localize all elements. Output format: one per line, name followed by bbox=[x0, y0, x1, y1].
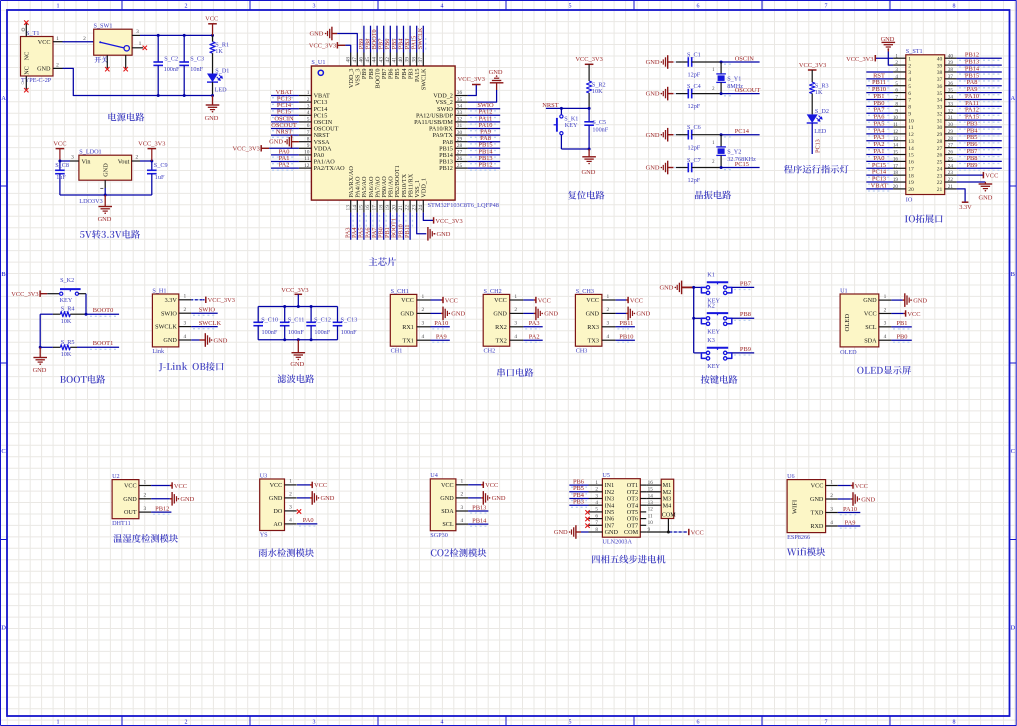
svg-text:5: 5 bbox=[908, 84, 911, 90]
svg-text:32: 32 bbox=[937, 111, 943, 117]
wire and net label PA11 at U1 pin 32 bbox=[468, 115, 501, 124]
svg-text:PA9: PA9 bbox=[845, 519, 856, 526]
capacitor S_C1 12pF with GND and net OSCIN bbox=[646, 51, 760, 78]
push button S_K2 KEY bbox=[60, 277, 81, 304]
module U6 ESP8266 body bbox=[787, 473, 838, 541]
svg-text:3: 3 bbox=[289, 505, 292, 511]
svg-text:SWCLK: SWCLK bbox=[199, 320, 222, 327]
wire and net label PA10 at S_ST1 pin 34 bbox=[957, 93, 1002, 102]
svg-text:39: 39 bbox=[948, 60, 954, 66]
svg-text:GND: GND bbox=[310, 31, 324, 38]
junction filter rail C11 top bbox=[283, 305, 286, 308]
wire and net label PB0 at U1 OLED pin 4 SDA bbox=[891, 334, 911, 343]
wire S_T1 GND to bottom rail bbox=[63, 68, 213, 95]
svg-text:16: 16 bbox=[893, 156, 899, 162]
push button K2 KEY bbox=[694, 302, 732, 335]
svg-text:23: 23 bbox=[411, 205, 417, 211]
svg-text:28: 28 bbox=[457, 143, 463, 149]
module U4 SGP30 body bbox=[430, 472, 468, 539]
svg-text:BOOT1: BOOT1 bbox=[93, 340, 114, 347]
svg-text:M4: M4 bbox=[663, 502, 672, 509]
section title BOOT电路 bbox=[60, 375, 105, 384]
svg-text:VCC_3V3: VCC_3V3 bbox=[799, 62, 826, 69]
svg-text:40: 40 bbox=[937, 56, 943, 62]
svg-text:PB10: PB10 bbox=[619, 334, 633, 341]
net 3.3V at S_ST1 pin 21 bbox=[957, 189, 973, 211]
svg-text:OLED: OLED bbox=[840, 349, 857, 356]
junction at Vin node bbox=[58, 160, 61, 163]
svg-text:9: 9 bbox=[908, 111, 911, 117]
svg-text:18: 18 bbox=[378, 205, 384, 211]
wire and net label OSCIN at U1 pin 5 bbox=[271, 115, 299, 124]
junction filter GND node bbox=[297, 338, 300, 341]
wire and net label PB6 at U5 pin 1 bbox=[569, 479, 588, 488]
svg-text:PA3: PA3 bbox=[529, 320, 540, 327]
svg-text:2: 2 bbox=[830, 493, 833, 499]
svg-text:3: 3 bbox=[514, 321, 517, 327]
svg-text:4: 4 bbox=[595, 500, 598, 506]
wire and net label PB12 at U1 pin 25 bbox=[468, 162, 501, 171]
svg-text:1uF: 1uF bbox=[155, 174, 165, 181]
svg-text:10: 10 bbox=[304, 150, 310, 156]
svg-text:34: 34 bbox=[457, 103, 463, 109]
svg-text:TXD: TXD bbox=[811, 510, 824, 517]
svg-text:COM: COM bbox=[624, 529, 639, 536]
svg-text:31: 31 bbox=[937, 118, 943, 124]
svg-text:SDA: SDA bbox=[441, 508, 454, 515]
svg-text:7: 7 bbox=[825, 719, 828, 725]
wire U5 COM to motor and VCC bbox=[646, 519, 687, 533]
svg-text:40: 40 bbox=[398, 57, 404, 63]
svg-text:10: 10 bbox=[893, 115, 899, 121]
svg-text:PB0: PB0 bbox=[896, 334, 907, 341]
wire and net label PB4 at U5 pin 3 bbox=[569, 492, 588, 501]
svg-text:VDD_1: VDD_1 bbox=[421, 178, 428, 198]
svg-text:12pF: 12pF bbox=[688, 144, 701, 151]
svg-text:38: 38 bbox=[411, 57, 417, 63]
svg-text:26: 26 bbox=[457, 156, 463, 162]
svg-text:VCC: VCC bbox=[985, 172, 998, 179]
svg-text:23: 23 bbox=[937, 173, 943, 179]
ground GND of filter bbox=[290, 340, 305, 368]
ground GND of BOOT circuit bbox=[33, 347, 47, 374]
junction key GND node bbox=[692, 286, 695, 289]
svg-text:SCL: SCL bbox=[442, 521, 454, 528]
wire and net label PA6 at S_ST1 pin 10 bbox=[866, 114, 893, 123]
svg-text:RX1: RX1 bbox=[402, 324, 414, 331]
ground GND at U2 pin 2 bbox=[151, 492, 195, 506]
svg-text:VCC: VCC bbox=[855, 483, 868, 490]
svg-text:GND: GND bbox=[646, 165, 660, 172]
svg-text:VCC: VCC bbox=[494, 297, 507, 304]
svg-text:2: 2 bbox=[461, 492, 464, 498]
wire and net label PA0 at U3 pin 4 bbox=[297, 517, 317, 526]
svg-text:1K: 1K bbox=[815, 89, 823, 96]
svg-text:34: 34 bbox=[937, 98, 943, 104]
svg-text:2: 2 bbox=[183, 307, 186, 313]
svg-text:NC: NC bbox=[24, 52, 31, 61]
wire and net label PA15 at U1 pin 38 bbox=[411, 26, 420, 53]
svg-text:S_CH1: S_CH1 bbox=[391, 288, 409, 295]
svg-text:25: 25 bbox=[937, 160, 943, 166]
svg-text:VCC: VCC bbox=[124, 483, 137, 490]
svg-text:GND: GND bbox=[163, 337, 177, 344]
svg-text:VCC: VCC bbox=[53, 140, 66, 147]
wire and net label PB1 at U1 OLED pin 3 SCL bbox=[891, 320, 911, 329]
crystal S_Y2 32.768KHz bbox=[712, 135, 756, 168]
net label NRST and wire bbox=[542, 102, 589, 109]
junction crystal Y2 bottom bbox=[720, 166, 723, 169]
svg-text:32: 32 bbox=[948, 108, 954, 114]
svg-text:3: 3 bbox=[884, 321, 887, 327]
svg-text:GND: GND bbox=[321, 495, 335, 502]
svg-text:22: 22 bbox=[405, 205, 411, 211]
svg-text:2: 2 bbox=[514, 307, 517, 313]
svg-text:37: 37 bbox=[418, 57, 424, 63]
svg-text:K2: K2 bbox=[707, 302, 715, 309]
svg-text:14: 14 bbox=[893, 143, 899, 149]
svg-text:14: 14 bbox=[908, 146, 914, 152]
wire and net label PB13 at S_ST1 pin 39 bbox=[957, 59, 1002, 68]
svg-text:VCC: VCC bbox=[630, 297, 643, 304]
svg-text:GND: GND bbox=[660, 285, 674, 292]
svg-text:PB12: PB12 bbox=[439, 165, 453, 172]
display U1 OLED body bbox=[840, 287, 891, 356]
svg-text:1: 1 bbox=[307, 90, 310, 96]
ground GND at U1 pin 23 VSS_1 bbox=[417, 213, 451, 241]
svg-text:PA2: PA2 bbox=[529, 334, 540, 341]
svg-text:IO: IO bbox=[906, 196, 913, 203]
wire filter top rail bbox=[258, 306, 337, 308]
svg-text:100nF: 100nF bbox=[164, 66, 180, 73]
svg-text:B: B bbox=[1, 271, 6, 278]
S_ST1 left pin stubs 1-20 bbox=[893, 53, 906, 190]
wire and net label SWIO at S_H1 pin 2 bbox=[191, 307, 218, 316]
svg-text:S_T1: S_T1 bbox=[26, 30, 39, 37]
junction filter VCC node bbox=[297, 305, 300, 308]
svg-text:2: 2 bbox=[83, 36, 86, 42]
svg-text:GND: GND bbox=[269, 495, 283, 502]
svg-text:11: 11 bbox=[893, 122, 898, 128]
svg-text:1: 1 bbox=[908, 56, 911, 62]
module U3 YS body bbox=[260, 472, 297, 538]
svg-text:11: 11 bbox=[908, 125, 914, 131]
pin 2 Vout of S_LDO1 bbox=[132, 155, 152, 161]
svg-text:VCC_3V3: VCC_3V3 bbox=[208, 297, 235, 304]
svg-text:12: 12 bbox=[893, 129, 899, 135]
svg-text:1: 1 bbox=[830, 479, 833, 485]
ground GND of reset circuit bbox=[581, 149, 595, 176]
svg-text:100nF: 100nF bbox=[314, 329, 330, 336]
svg-text:39: 39 bbox=[405, 57, 411, 63]
crystal S_Y1 8MHz bbox=[712, 62, 743, 94]
push button S_K1 KEY bbox=[554, 108, 579, 149]
svg-text:6: 6 bbox=[908, 91, 911, 97]
svg-text:VCC: VCC bbox=[485, 482, 498, 489]
svg-text:36: 36 bbox=[948, 81, 954, 87]
svg-text:U1: U1 bbox=[840, 287, 848, 294]
svg-text:GND: GND bbox=[581, 169, 595, 176]
power flag VCC_3V3 at U1 pin 36 VDD_2 bbox=[458, 76, 485, 95]
svg-text:100nF: 100nF bbox=[288, 329, 304, 336]
svg-text:5: 5 bbox=[307, 117, 310, 123]
svg-text:9: 9 bbox=[895, 108, 898, 114]
svg-text:8: 8 bbox=[953, 719, 956, 725]
svg-text:SWCLK: SWCLK bbox=[155, 324, 177, 331]
junction bottom rail at D1 bbox=[211, 94, 214, 97]
ground GND at S_CH2 pin 2 bbox=[523, 307, 558, 321]
wire and net label PA10 at U6 pin 3 bbox=[838, 506, 861, 515]
svg-text:25: 25 bbox=[948, 156, 954, 162]
svg-text:YS: YS bbox=[260, 532, 268, 539]
power flag VCC at LDO input bbox=[53, 140, 66, 161]
wire and net label PB13 at U4 pin 3 bbox=[468, 504, 488, 513]
svg-text:Link: Link bbox=[152, 348, 165, 355]
wire and net label PA3 at U1 pin 13 bbox=[345, 213, 354, 240]
connector S_CH1 body bbox=[390, 288, 430, 355]
svg-text:2: 2 bbox=[185, 719, 188, 725]
wire and net label VBAT at S_ST1 pin 20 bbox=[866, 182, 893, 191]
junction at NRST/R2/C5 node bbox=[588, 107, 591, 110]
svg-text:U3: U3 bbox=[260, 472, 268, 479]
svg-text:4: 4 bbox=[830, 520, 833, 526]
svg-text:24: 24 bbox=[937, 166, 943, 172]
section title J-Link OB接口 bbox=[159, 362, 224, 371]
svg-text:S_Y2: S_Y2 bbox=[727, 149, 741, 156]
svg-text:1: 1 bbox=[607, 294, 610, 300]
power flag VCC at S_CH3 pin 1 bbox=[616, 297, 643, 305]
svg-text:A: A bbox=[1010, 95, 1015, 102]
svg-text:PB1: PB1 bbox=[896, 320, 907, 327]
junction at key K1 top bbox=[560, 107, 563, 110]
svg-text:1: 1 bbox=[289, 479, 292, 485]
svg-text:8: 8 bbox=[908, 105, 911, 111]
junction at Vout node bbox=[150, 160, 153, 163]
svg-text:VCC: VCC bbox=[538, 297, 551, 304]
svg-text:GND: GND bbox=[492, 495, 506, 502]
svg-text:31: 31 bbox=[457, 123, 463, 129]
svg-text:6: 6 bbox=[595, 513, 598, 519]
svg-text:12: 12 bbox=[304, 163, 310, 169]
pin 3 Vin of S_LDO1 bbox=[60, 155, 79, 161]
svg-text:3.3V: 3.3V bbox=[165, 297, 178, 304]
no-connect X at U5 pin 6 IN6 bbox=[585, 517, 589, 521]
svg-text:40: 40 bbox=[948, 53, 954, 59]
wire and net label PB14 at S_ST1 pin 38 bbox=[957, 65, 1002, 74]
wire and net label PA15 at S_ST1 pin 31 bbox=[957, 114, 1002, 123]
svg-text:PB13: PB13 bbox=[472, 504, 486, 511]
svg-text:GND: GND bbox=[205, 115, 219, 122]
svg-text:28: 28 bbox=[937, 139, 943, 145]
svg-text:U4: U4 bbox=[430, 472, 438, 479]
svg-text:U2: U2 bbox=[112, 473, 120, 480]
svg-text:S_C9: S_C9 bbox=[154, 162, 168, 169]
wire and net label SWCLK at S_H1 pin 3 bbox=[191, 320, 221, 329]
svg-text:LED: LED bbox=[215, 87, 228, 94]
svg-text:26: 26 bbox=[948, 150, 954, 156]
svg-text:17: 17 bbox=[372, 205, 378, 211]
wire and net label OSCOUT at U1 pin 6 bbox=[271, 122, 299, 131]
svg-text:20: 20 bbox=[908, 187, 914, 193]
svg-text:4: 4 bbox=[183, 334, 186, 340]
svg-text:1: 1 bbox=[895, 53, 898, 59]
svg-text:GND: GND bbox=[269, 139, 283, 146]
svg-text:S_C4: S_C4 bbox=[687, 83, 701, 90]
junction LDO ground node bbox=[104, 194, 107, 197]
IC U1 STM32F103C8T6_LQFP48 body bbox=[311, 59, 498, 209]
ground GND of key circuit bbox=[660, 281, 694, 295]
svg-text:48: 48 bbox=[345, 57, 351, 63]
svg-text:27: 27 bbox=[457, 150, 463, 156]
svg-text:VCC_3V3: VCC_3V3 bbox=[458, 76, 485, 83]
svg-text:2: 2 bbox=[185, 4, 188, 10]
wire U5 OT4 to motor M4 bbox=[646, 504, 661, 506]
svg-text:GND: GND bbox=[123, 496, 137, 503]
power flag VCC_3V3 of BOOT circuit bbox=[11, 291, 60, 298]
svg-text:13: 13 bbox=[893, 136, 899, 142]
power flag VCC at U3 pin 1 bbox=[297, 482, 327, 490]
wire and net label PB7 at S_ST1 pin 26 bbox=[957, 148, 1002, 157]
svg-text:14: 14 bbox=[352, 205, 358, 211]
power flag VCC at S_ST1 pin 23 bbox=[957, 172, 999, 179]
junction filter rail C12 top bbox=[310, 305, 313, 308]
svg-text:VCC_3V3: VCC_3V3 bbox=[309, 43, 336, 50]
svg-text:PA10: PA10 bbox=[843, 506, 857, 513]
IC U5 ULN2003A body bbox=[602, 472, 640, 546]
wire and net label PA2 at S_ST1 pin 14 bbox=[866, 141, 893, 150]
svg-text:VBAT: VBAT bbox=[871, 182, 888, 189]
svg-text:21: 21 bbox=[398, 205, 404, 211]
section title 滤波电路 bbox=[277, 374, 314, 383]
capacitor S_C10 100nF bbox=[253, 307, 278, 340]
svg-text:CH3: CH3 bbox=[576, 348, 588, 355]
svg-text:24: 24 bbox=[418, 205, 424, 211]
wire and net label PB10 at U1 pin 21 bbox=[397, 213, 406, 240]
wire filter bottom rail bbox=[258, 339, 337, 341]
power flag VCC at U4 pin 1 bbox=[468, 482, 498, 490]
wire and net label PA9 at S_ST1 pin 35 bbox=[957, 86, 1002, 95]
pin 1 of S_SW1 with no-connect X bbox=[132, 41, 147, 50]
svg-text:NC: NC bbox=[24, 66, 31, 75]
power flag VCC at S_CH1 pin 1 bbox=[431, 297, 458, 305]
svg-text:BOOT0: BOOT0 bbox=[93, 307, 114, 314]
junction reset ground node bbox=[588, 148, 591, 151]
svg-text:4: 4 bbox=[441, 719, 444, 725]
svg-text:16: 16 bbox=[908, 160, 914, 166]
svg-text:GND: GND bbox=[881, 36, 895, 43]
svg-text:S_ST1: S_ST1 bbox=[906, 48, 923, 55]
svg-text:3: 3 bbox=[595, 493, 598, 499]
power flag VCC at U6 pin 1 bbox=[838, 482, 868, 490]
wire and net label PA6 at U1 pin 16 bbox=[364, 213, 373, 240]
wire and net label PA9 at S_CH1 pin 4 bbox=[431, 334, 450, 343]
svg-text:6: 6 bbox=[697, 4, 700, 10]
svg-text:PA2/TX/AO: PA2/TX/AO bbox=[314, 165, 346, 172]
svg-text:GND: GND bbox=[180, 496, 194, 503]
svg-text:SWIO: SWIO bbox=[161, 310, 177, 317]
svg-text:S_D2: S_D2 bbox=[815, 108, 829, 115]
svg-text:U5: U5 bbox=[602, 472, 610, 479]
wire and net label PB8 at S_ST1 pin 25 bbox=[957, 155, 1002, 164]
power flag VCC_3V3 at U1 pin 48 VDD_3 bbox=[309, 42, 351, 52]
wire and net label PB14 at U1 pin 27 bbox=[468, 148, 501, 157]
svg-text:VCC_3V3: VCC_3V3 bbox=[281, 287, 308, 294]
svg-text:RX2: RX2 bbox=[495, 324, 507, 331]
wire and net label PA7 at S_ST1 pin 9 bbox=[866, 107, 893, 116]
svg-text:3: 3 bbox=[895, 67, 898, 73]
svg-text:29: 29 bbox=[948, 129, 954, 135]
svg-text:Vin: Vin bbox=[82, 158, 91, 165]
ground GND at S_ST1 pin 22 bbox=[957, 182, 993, 202]
svg-text:GND: GND bbox=[863, 297, 877, 304]
capacitor S_C9 1uF bbox=[147, 161, 168, 195]
svg-text:18: 18 bbox=[893, 170, 899, 176]
svg-text:3.3V: 3.3V bbox=[959, 204, 972, 211]
svg-text:VCC: VCC bbox=[691, 529, 704, 536]
svg-text:4: 4 bbox=[895, 74, 898, 80]
svg-text:19: 19 bbox=[893, 177, 899, 183]
svg-text:C: C bbox=[1, 448, 5, 455]
svg-text:2: 2 bbox=[895, 60, 898, 66]
svg-text:GND: GND bbox=[605, 529, 619, 536]
svg-text:20: 20 bbox=[392, 205, 398, 211]
ground GND at U5 pin 8 bbox=[554, 525, 589, 539]
section title OLED显示屏 bbox=[857, 366, 911, 375]
svg-text:GND: GND bbox=[489, 69, 503, 76]
ground GND at S_CH3 pin 2 bbox=[616, 307, 651, 321]
svg-text:7: 7 bbox=[825, 4, 828, 10]
ground GND at U4 pin 2 bbox=[468, 491, 506, 505]
no-connect X at U3 pin 3 DO bbox=[297, 509, 301, 513]
pin 1 VCC of S_T1 bbox=[53, 36, 63, 42]
power flag VCC at U2 pin 1 bbox=[151, 482, 187, 490]
svg-text:VCC: VCC bbox=[38, 39, 51, 46]
svg-text:0: 0 bbox=[21, 81, 24, 87]
wire and net label NRST at U1 pin 7 bbox=[271, 129, 299, 138]
svg-text:S_C2: S_C2 bbox=[164, 56, 178, 63]
svg-text:19: 19 bbox=[908, 180, 914, 186]
wire and net label PB6 at U1 pin 42 bbox=[384, 26, 393, 53]
section title 四相五线步进电机 bbox=[592, 555, 665, 564]
wire and net label PA1 at S_ST1 pin 15 bbox=[866, 148, 893, 157]
svg-text:D: D bbox=[1010, 625, 1015, 632]
power flag VCC_3V3 of filter bbox=[281, 287, 308, 307]
svg-text:PA10: PA10 bbox=[434, 320, 448, 327]
wire U5 OT1 to motor M1 bbox=[646, 484, 661, 486]
capacitor S_C2 100nF bbox=[153, 35, 180, 95]
svg-text:17: 17 bbox=[908, 166, 914, 172]
svg-text:VCC_3V3: VCC_3V3 bbox=[575, 56, 602, 63]
svg-text:PB3: PB3 bbox=[573, 499, 584, 506]
wire and net label PA2 at S_CH2 pin 4 bbox=[523, 334, 542, 343]
section title Wifi模块 bbox=[787, 547, 825, 556]
svg-text:GND: GND bbox=[646, 132, 660, 139]
wire and net label PB3 at S_ST1 pin 30 bbox=[957, 120, 1002, 129]
svg-text:20: 20 bbox=[893, 184, 899, 190]
ground GND of power circuit bbox=[205, 96, 220, 122]
svg-text:K3: K3 bbox=[707, 337, 715, 344]
svg-text:36: 36 bbox=[937, 84, 943, 90]
svg-text:PB9: PB9 bbox=[966, 162, 977, 169]
power flag VCC bbox=[205, 16, 218, 36]
svg-text:37: 37 bbox=[937, 77, 943, 83]
power flag VCC at S_CH2 pin 1 bbox=[523, 297, 550, 305]
svg-text:VCC_3V3: VCC_3V3 bbox=[846, 56, 873, 63]
svg-text:21: 21 bbox=[948, 184, 954, 190]
svg-text:VCC: VCC bbox=[205, 16, 218, 23]
junction on VCC rail at R1 bbox=[211, 34, 214, 37]
svg-text:44: 44 bbox=[372, 57, 378, 63]
